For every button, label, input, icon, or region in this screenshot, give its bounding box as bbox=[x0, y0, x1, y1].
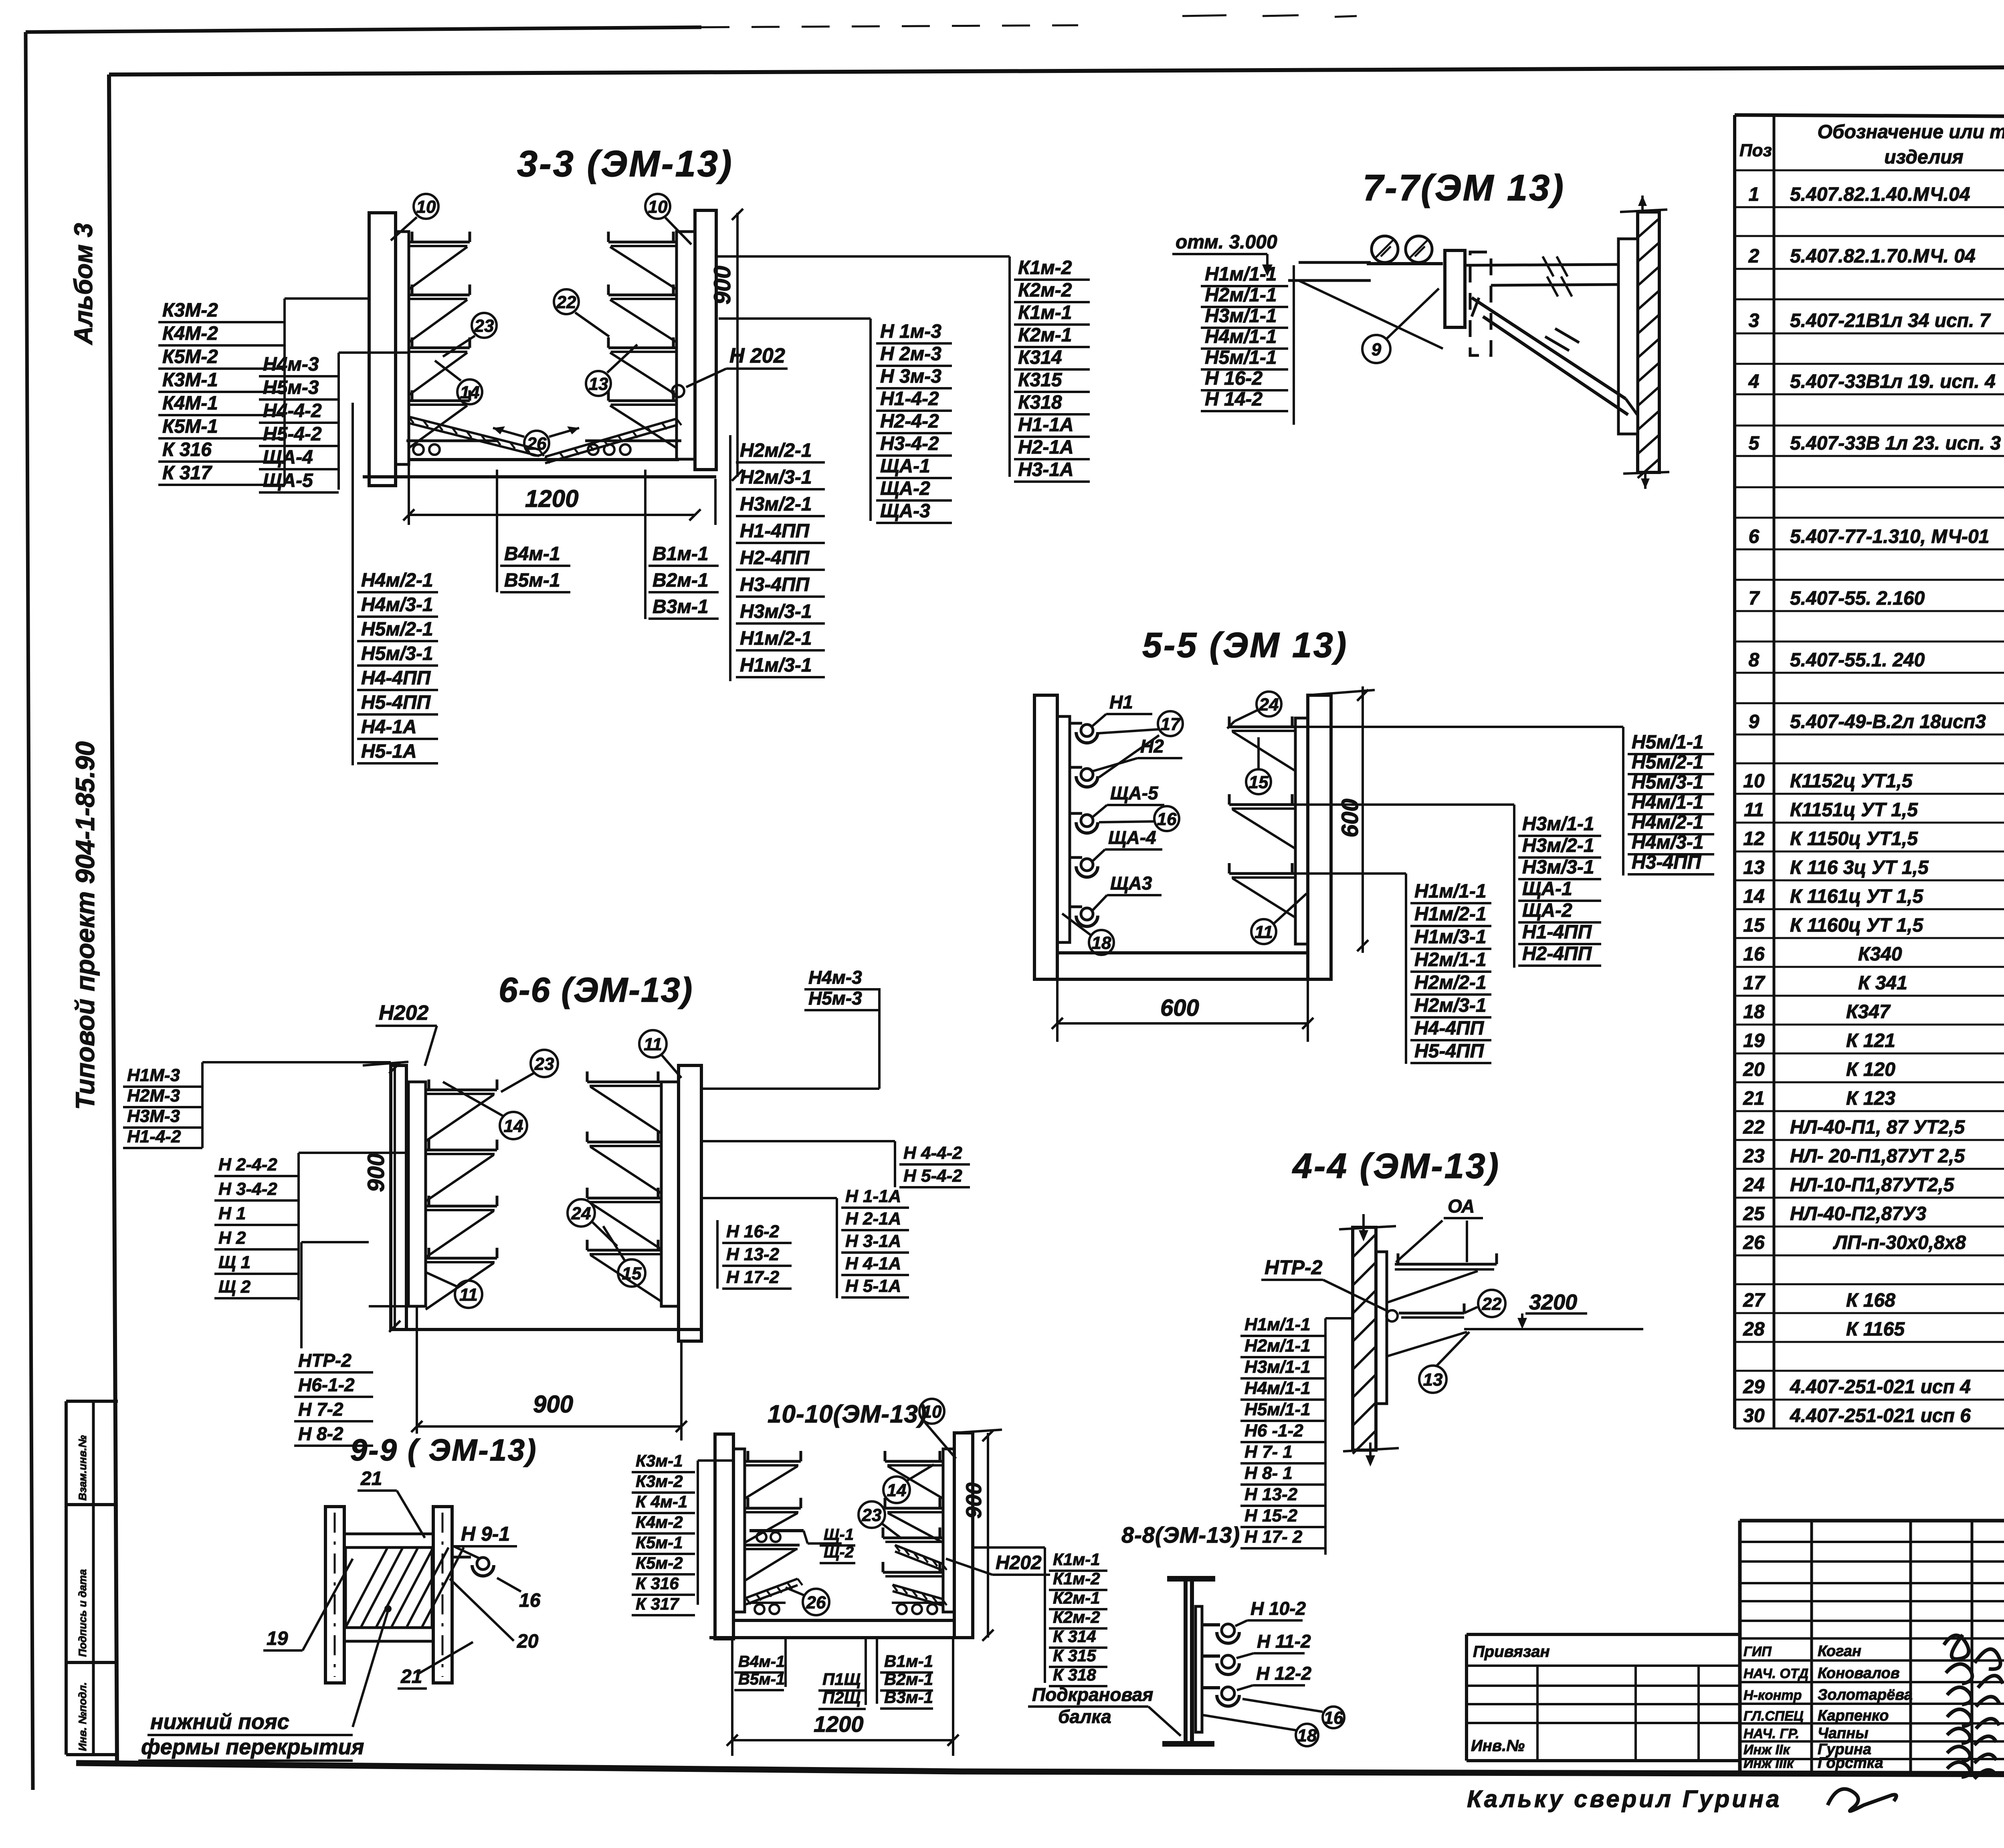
3-3 horizontal dimension 1200 bbox=[409, 514, 695, 516]
svg-text:29: 29 bbox=[1743, 1376, 1765, 1398]
svg-text:ЩА3: ЩА3 bbox=[1110, 873, 1152, 894]
7-7 dashed post bbox=[1470, 252, 1491, 355]
10-10 floor lines bbox=[733, 1619, 954, 1622]
svg-text:13: 13 bbox=[589, 374, 608, 394]
svg-text:Н6-1-2: Н6-1-2 bbox=[298, 1374, 355, 1395]
4-4 hatched wall bbox=[1353, 1227, 1376, 1450]
svg-text:24: 24 bbox=[571, 1204, 591, 1223]
svg-text:7: 7 bbox=[1749, 588, 1760, 609]
svg-text:Н2м/2-1: Н2м/2-1 bbox=[740, 440, 812, 461]
svg-text:14: 14 bbox=[460, 383, 480, 402]
svg-text:Н 2-1А: Н 2-1А bbox=[845, 1209, 901, 1229]
sheet outer border top bbox=[26, 27, 701, 32]
svg-text:В5м-1: В5м-1 bbox=[738, 1670, 785, 1688]
svg-text:Н4м/1-1: Н4м/1-1 bbox=[1632, 792, 1704, 813]
svg-text:Привязан: Привязан bbox=[1473, 1643, 1550, 1660]
svg-text:Н1м/1-1: Н1м/1-1 bbox=[1205, 264, 1277, 285]
svg-text:22: 22 bbox=[1743, 1117, 1765, 1138]
svg-text:Н 1: Н 1 bbox=[218, 1204, 246, 1223]
svg-text:Н4-4ПП: Н4-4ПП bbox=[361, 668, 431, 689]
svg-text:Н 8- 1: Н 8- 1 bbox=[1244, 1463, 1293, 1483]
svg-text:ЩА-2: ЩА-2 bbox=[1522, 900, 1572, 921]
svg-text:18: 18 bbox=[1743, 1001, 1765, 1023]
svg-text:В3м-1: В3м-1 bbox=[653, 596, 709, 617]
svg-text:Н5м/2-1: Н5м/2-1 bbox=[361, 619, 433, 640]
svg-text:Н2м/1-1: Н2м/1-1 bbox=[1414, 949, 1487, 970]
6-6 left bar bbox=[408, 1082, 426, 1306]
svg-text:НТР-2: НТР-2 bbox=[298, 1350, 352, 1371]
3-3 callout circle 23 bbox=[472, 313, 497, 338]
svg-text:Н5м/1-1: Н5м/1-1 bbox=[1244, 1400, 1311, 1419]
6-6 callout circle 11 bottom bbox=[455, 1281, 482, 1308]
svg-text:Н 1м-3: Н 1м-3 bbox=[880, 321, 941, 342]
svg-text:К 123: К 123 bbox=[1846, 1088, 1895, 1109]
svg-text:Кальку сверил Гурина: Кальку сверил Гурина bbox=[1467, 1785, 1782, 1812]
10-10 right floor rollers bbox=[897, 1604, 907, 1614]
svg-text:Н3м/2-1: Н3м/2-1 bbox=[1522, 835, 1594, 856]
svg-text:Н4м/3-1: Н4м/3-1 bbox=[361, 594, 433, 615]
svg-text:18: 18 bbox=[1297, 1726, 1317, 1745]
svg-text:К347: К347 bbox=[1846, 1001, 1891, 1023]
svg-text:15: 15 bbox=[1743, 915, 1765, 936]
table outer and columns bbox=[1735, 115, 2004, 119]
4-4 wall bar bbox=[1376, 1252, 1387, 1404]
6-6 callout circle 24 bbox=[568, 1199, 595, 1227]
svg-text:Н 1-1А: Н 1-1А bbox=[845, 1186, 901, 1206]
svg-text:К1м-2: К1м-2 bbox=[1053, 1569, 1100, 1588]
10-10 right hatched tray 2 bbox=[893, 1585, 942, 1599]
svg-text:Н3м/3-1: Н3м/3-1 bbox=[1522, 857, 1594, 878]
svg-text:В5м-1: В5м-1 bbox=[504, 570, 560, 591]
6-6 callout circle 23 bbox=[531, 1050, 558, 1077]
svg-text:балка: балка bbox=[1058, 1706, 1111, 1727]
5-5 right shelves bbox=[1229, 726, 1295, 728]
svg-text:24: 24 bbox=[1259, 695, 1279, 714]
svg-text:Н 17-2: Н 17-2 bbox=[726, 1267, 780, 1287]
svg-text:НЛ-40-П2,87У3: НЛ-40-П2,87У3 bbox=[1790, 1203, 1926, 1225]
svg-text:Карпенко: Карпенко bbox=[1818, 1707, 1889, 1724]
svg-text:5.407-33В1л 19. исп. 4: 5.407-33В1л 19. исп. 4 bbox=[1790, 371, 1996, 392]
svg-text:Н4м/2-1: Н4м/2-1 bbox=[1632, 812, 1704, 833]
svg-text:Н 3м-3: Н 3м-3 bbox=[880, 366, 941, 387]
svg-text:4-4 (ЭМ-13): 4-4 (ЭМ-13) bbox=[1292, 1146, 1500, 1186]
3-3 right sloped tray bbox=[545, 419, 677, 457]
title block left grid verticals bbox=[1810, 1521, 1813, 1775]
svg-text:Н5м/3-1: Н5м/3-1 bbox=[1632, 772, 1704, 793]
5-5 horizontal dimension 600 bbox=[1057, 1022, 1308, 1025]
svg-text:Н 16-2: Н 16-2 bbox=[1205, 368, 1263, 389]
svg-text:К3м-2: К3м-2 bbox=[636, 1472, 683, 1491]
4-4 top shelf OA bbox=[1395, 1263, 1497, 1266]
svg-text:Н2-4ПП: Н2-4ПП bbox=[740, 547, 810, 569]
3-3 right shelves bbox=[608, 241, 677, 244]
10-10 callout circle 26 bbox=[803, 1589, 829, 1615]
inner frame top line bbox=[109, 65, 2004, 75]
svg-text:Н3-1А: Н3-1А bbox=[1018, 459, 1074, 480]
svg-text:Н3м/3-1: Н3м/3-1 bbox=[740, 601, 812, 622]
svg-text:6-6 (ЭМ-13): 6-6 (ЭМ-13) bbox=[499, 971, 693, 1009]
svg-text:К3М-2: К3М-2 bbox=[162, 300, 218, 321]
3-3 callout circle 13 bbox=[586, 371, 611, 396]
svg-text:Н202: Н202 bbox=[379, 1001, 428, 1025]
svg-text:12: 12 bbox=[1743, 828, 1765, 849]
svg-text:Н5м-3: Н5м-3 bbox=[808, 988, 862, 1009]
7-7 brace break marks bbox=[1545, 337, 1569, 351]
svg-text:9: 9 bbox=[1372, 340, 1382, 359]
svg-text:К318: К318 bbox=[1018, 392, 1062, 413]
svg-text:П1Щ: П1Щ bbox=[822, 1670, 861, 1689]
svg-text:5.407-55. 2.160: 5.407-55. 2.160 bbox=[1790, 588, 1925, 609]
svg-text:4: 4 bbox=[1748, 371, 1760, 392]
10-10 right bar bbox=[943, 1449, 954, 1612]
svg-text:Н2-1А: Н2-1А bbox=[1018, 437, 1074, 458]
svg-text:8: 8 bbox=[1749, 650, 1760, 671]
svg-text:ГИП: ГИП bbox=[1743, 1644, 1772, 1659]
5-5 right bar bbox=[1295, 718, 1308, 944]
svg-text:Н4м/3-1: Н4м/3-1 bbox=[1632, 832, 1704, 853]
svg-text:Н 13-2: Н 13-2 bbox=[1244, 1485, 1298, 1504]
6-6 callout circle 15 bbox=[618, 1259, 645, 1287]
svg-text:Н 2м-3: Н 2м-3 bbox=[880, 343, 941, 365]
svg-text:Н1-4ПП: Н1-4ПП bbox=[740, 521, 810, 542]
3-3 callout circle 22 bbox=[554, 289, 579, 314]
svg-text:К5М-1: К5М-1 bbox=[162, 416, 218, 437]
svg-text:К314: К314 bbox=[1018, 347, 1062, 368]
svg-text:Н 7- 1: Н 7- 1 bbox=[1244, 1442, 1293, 1462]
7-7 callout circle 9 bbox=[1362, 335, 1390, 363]
svg-text:ЩА-4: ЩА-4 bbox=[263, 447, 313, 468]
svg-text:В2м-1: В2м-1 bbox=[653, 570, 709, 591]
svg-text:16: 16 bbox=[1324, 1708, 1343, 1728]
sidebar stamp boxes bbox=[66, 1400, 118, 1403]
3-3 left cable stand bar bbox=[396, 232, 409, 464]
10-10 vertical dimension 900 bbox=[987, 1433, 989, 1638]
9-9 top tie bar bbox=[344, 1533, 433, 1535]
svg-text:10: 10 bbox=[648, 197, 668, 217]
top edge artifact dashes bbox=[1182, 15, 1226, 16]
svg-text:20: 20 bbox=[517, 1631, 539, 1652]
svg-text:Н3-4-2: Н3-4-2 bbox=[880, 433, 939, 454]
3-3 callout circle 10 left bbox=[414, 194, 438, 219]
10-10 right shelf lower bbox=[883, 1571, 943, 1574]
svg-text:16: 16 bbox=[1157, 809, 1177, 829]
10-10 left bar bbox=[733, 1449, 745, 1612]
7-7 diagonal brace bbox=[1472, 298, 1626, 399]
svg-text:К2м-2: К2м-2 bbox=[1018, 280, 1072, 301]
3-3 callout circle 10 right bbox=[645, 194, 670, 219]
5-5 cable hooks bbox=[1070, 722, 1082, 725]
svg-text:В2м-1: В2м-1 bbox=[884, 1670, 933, 1689]
7-7 diagonal leader from shelf bbox=[1299, 280, 1443, 349]
svg-text:Коган: Коган bbox=[1818, 1643, 1861, 1660]
svg-text:Н202: Н202 bbox=[996, 1552, 1042, 1574]
svg-text:ЛП-п-30х0,8х8: ЛП-п-30х0,8х8 bbox=[1833, 1232, 1966, 1253]
8-8 cable stand bar bbox=[1196, 1606, 1202, 1732]
3-3 right cable stand bar bbox=[677, 232, 695, 459]
svg-text:К5м-1: К5м-1 bbox=[636, 1533, 683, 1552]
svg-text:НЛ-10-П1,87УТ2,5: НЛ-10-П1,87УТ2,5 bbox=[1790, 1174, 1955, 1196]
svg-text:5.407.82.1.70.МЧ. 04: 5.407.82.1.70.МЧ. 04 bbox=[1790, 246, 1976, 267]
svg-text:5.407.82.1.40.МЧ.04: 5.407.82.1.40.МЧ.04 bbox=[1790, 184, 1970, 205]
5-5 left bar bbox=[1057, 716, 1070, 942]
svg-text:К 1160ц УТ 1,5: К 1160ц УТ 1,5 bbox=[1790, 915, 1924, 936]
8-8 callout circle 18 bbox=[1296, 1724, 1318, 1746]
3-3 callout circle 26 bbox=[524, 431, 549, 456]
svg-text:В3м-1: В3м-1 bbox=[884, 1688, 933, 1707]
6-6 callout circle 14 bbox=[500, 1112, 527, 1139]
svg-text:изделия: изделия bbox=[1884, 147, 1964, 168]
svg-text:Н5-4ПП: Н5-4ПП bbox=[1414, 1041, 1485, 1062]
svg-text:Н4м/1-1: Н4м/1-1 bbox=[1244, 1378, 1311, 1398]
svg-text:Н3м/2-1: Н3м/2-1 bbox=[740, 494, 812, 515]
svg-text:Н 3-4-2: Н 3-4-2 bbox=[218, 1179, 277, 1199]
10-10 right column bbox=[954, 1433, 973, 1638]
svg-text:900: 900 bbox=[709, 266, 735, 305]
svg-text:НАЧ. ГР.: НАЧ. ГР. bbox=[1743, 1726, 1799, 1741]
svg-text:Н 12-2: Н 12-2 bbox=[1256, 1663, 1311, 1684]
svg-text:Обозначение или тип: Обозначение или тип bbox=[1818, 121, 2004, 143]
svg-text:Н1м/2-1: Н1м/2-1 bbox=[1414, 904, 1487, 925]
4-4 callout circle 22 bbox=[1478, 1290, 1505, 1317]
svg-text:Чапны: Чапны bbox=[1818, 1725, 1869, 1742]
svg-text:11: 11 bbox=[1255, 922, 1273, 942]
4-4 wall centerline arrows bbox=[1362, 1214, 1365, 1239]
svg-text:10-10(ЭМ-13): 10-10(ЭМ-13) bbox=[768, 1400, 927, 1428]
svg-text:Н4м/1-1: Н4м/1-1 bbox=[1205, 326, 1277, 347]
svg-text:Н 9-1: Н 9-1 bbox=[461, 1523, 510, 1545]
svg-text:В1м-1: В1м-1 bbox=[653, 543, 709, 565]
svg-text:11: 11 bbox=[644, 1035, 662, 1054]
7-7 horizontal ties with break marks bbox=[1465, 264, 1618, 265]
svg-text:Н1м/1-1: Н1м/1-1 bbox=[1414, 881, 1487, 902]
svg-text:5.407-21В1л 34 исп. 7: 5.407-21В1л 34 исп. 7 bbox=[1790, 310, 1991, 331]
svg-text:Н2М-3: Н2М-3 bbox=[127, 1086, 180, 1106]
6-6 left column bbox=[391, 1065, 406, 1330]
svg-text:2: 2 bbox=[1748, 246, 1760, 267]
svg-text:ОА: ОА bbox=[1448, 1196, 1475, 1217]
svg-text:К2м-1: К2м-1 bbox=[1053, 1588, 1100, 1607]
svg-text:Н3м/1-1: Н3м/1-1 bbox=[1244, 1357, 1311, 1377]
10-10 callout circle 23 bbox=[859, 1501, 885, 1528]
svg-text:Коновалов: Коновалов bbox=[1818, 1665, 1900, 1682]
sheet bottom heavy line bbox=[76, 1763, 2004, 1775]
svg-text:5-5 (ЭМ 13): 5-5 (ЭМ 13) bbox=[1142, 625, 1348, 665]
svg-text:11: 11 bbox=[459, 1285, 478, 1305]
svg-text:К 315: К 315 bbox=[1053, 1646, 1096, 1665]
3-3 floor lines bbox=[409, 458, 679, 461]
svg-text:7-7(ЭМ 13): 7-7(ЭМ 13) bbox=[1363, 167, 1565, 208]
3-3 callout circle 14 bbox=[457, 379, 482, 404]
8-8 callout circle 16 bbox=[1323, 1707, 1344, 1728]
svg-text:13: 13 bbox=[1743, 857, 1765, 878]
svg-text:К2м-1: К2м-1 bbox=[1018, 325, 1072, 346]
svg-text:ЩА-2: ЩА-2 bbox=[880, 478, 930, 499]
svg-text:28: 28 bbox=[1743, 1319, 1765, 1340]
6-6 right column bbox=[679, 1065, 701, 1341]
svg-text:10: 10 bbox=[1743, 771, 1765, 792]
svg-text:К 1150ц УТ1,5: К 1150ц УТ1,5 bbox=[1790, 828, 1918, 849]
svg-text:5.407-33В 1л 23. исп. 3: 5.407-33В 1л 23. исп. 3 bbox=[1790, 433, 2001, 454]
svg-text:К 318: К 318 bbox=[1053, 1665, 1096, 1684]
svg-text:Н 16-2: Н 16-2 bbox=[726, 1222, 780, 1241]
svg-text:Н4-4-2: Н4-4-2 bbox=[263, 400, 322, 422]
5-5 right wall bbox=[1308, 695, 1331, 979]
svg-text:К1151ц УТ 1,5: К1151ц УТ 1,5 bbox=[1790, 799, 1918, 821]
svg-text:Н 8-2: Н 8-2 bbox=[298, 1423, 343, 1444]
svg-text:5.407-49-В.2л 18исп3: 5.407-49-В.2л 18исп3 bbox=[1790, 711, 1986, 732]
10-10 right hatched tray 1 bbox=[895, 1545, 942, 1564]
3-3 vertical dimension 900 bbox=[736, 213, 739, 477]
5-5 callout circle 15 bbox=[1246, 769, 1271, 794]
svg-text:5: 5 bbox=[1749, 433, 1760, 454]
svg-text:П2Щ: П2Щ bbox=[822, 1688, 861, 1707]
svg-text:9: 9 bbox=[1749, 711, 1760, 732]
svg-text:Н1: Н1 bbox=[1109, 692, 1133, 712]
9-9 wall hook bbox=[452, 1556, 471, 1559]
svg-text:Н2м/3-1: Н2м/3-1 bbox=[740, 467, 812, 488]
svg-text:К2м-2: К2м-2 bbox=[1053, 1608, 1100, 1626]
svg-text:9-9 ( ЭМ-13): 9-9 ( ЭМ-13) bbox=[350, 1433, 537, 1467]
title block left grid horizontals bbox=[1740, 1541, 2004, 1543]
svg-text:К 341: К 341 bbox=[1858, 972, 1907, 994]
svg-text:К 316: К 316 bbox=[162, 439, 212, 460]
svg-text:15: 15 bbox=[622, 1264, 642, 1283]
svg-text:16: 16 bbox=[1743, 944, 1765, 965]
svg-text:11: 11 bbox=[1744, 799, 1764, 821]
3-3 left wall column bbox=[369, 213, 396, 486]
svg-text:В4м-1: В4м-1 bbox=[504, 543, 560, 565]
svg-text:Инв. №подл.: Инв. №подл. bbox=[77, 1682, 89, 1751]
svg-text:Щ 2: Щ 2 bbox=[218, 1277, 251, 1297]
svg-text:5.407-77-1.310, МЧ-01: 5.407-77-1.310, МЧ-01 bbox=[1790, 526, 1989, 547]
9-9 hatched panel bbox=[345, 1547, 432, 1628]
svg-text:К 314: К 314 bbox=[1053, 1627, 1096, 1646]
svg-text:Н4м-3: Н4м-3 bbox=[808, 967, 862, 988]
svg-text:К3М-1: К3М-1 bbox=[162, 369, 218, 391]
svg-text:фермы перекрытия: фермы перекрытия bbox=[141, 1735, 364, 1759]
svg-text:Щ-2: Щ-2 bbox=[824, 1543, 854, 1561]
5-5 callout circle 11 bbox=[1251, 919, 1276, 944]
svg-text:6: 6 bbox=[1749, 526, 1760, 547]
svg-text:К1м-1: К1м-1 bbox=[1018, 302, 1072, 323]
svg-text:Н3-4ПП: Н3-4ПП bbox=[740, 574, 810, 595]
svg-text:К5М-2: К5М-2 bbox=[162, 346, 218, 367]
svg-text:Н2м/2-1: Н2м/2-1 bbox=[1414, 972, 1487, 993]
привязан table bbox=[1467, 1633, 1740, 1636]
svg-text:Н2м/1-1: Н2м/1-1 bbox=[1205, 284, 1277, 306]
svg-text:Н 2-4-2: Н 2-4-2 bbox=[218, 1155, 277, 1174]
svg-text:Н1м/3-1: Н1м/3-1 bbox=[1414, 926, 1487, 948]
7-7 wall hatched bbox=[1638, 212, 1659, 472]
7-7 shelf line bbox=[1288, 279, 1371, 282]
svg-text:НЛ- 20-П1,87УТ 2,5: НЛ- 20-П1,87УТ 2,5 bbox=[1790, 1146, 1965, 1167]
10-10 left floor rollers bbox=[755, 1604, 764, 1614]
7-7 cable rolls bbox=[1372, 236, 1398, 262]
svg-text:21: 21 bbox=[360, 1468, 382, 1489]
svg-text:Поз: Поз bbox=[1739, 141, 1772, 160]
6-6 callout circle 11 top bbox=[639, 1030, 667, 1057]
svg-text:Подпись и дата: Подпись и дата bbox=[77, 1569, 89, 1657]
10-10 left hatched tray bbox=[746, 1579, 798, 1598]
5-5 callout circle 24 bbox=[1257, 692, 1281, 716]
svg-text:1: 1 bbox=[1749, 184, 1760, 205]
5-5 callout circle 18 bbox=[1089, 930, 1114, 955]
svg-text:3200: 3200 bbox=[1529, 1290, 1577, 1314]
svg-text:В4м-1: В4м-1 bbox=[738, 1653, 785, 1670]
3-3 left shelves K-series bbox=[409, 241, 470, 244]
svg-text:ЩА-5: ЩА-5 bbox=[263, 470, 313, 491]
svg-text:нижний пояс: нижний пояс bbox=[150, 1710, 289, 1734]
svg-text:К315: К315 bbox=[1018, 369, 1063, 391]
svg-text:Н1-4-2: Н1-4-2 bbox=[127, 1127, 181, 1146]
8-8 hooks bbox=[1202, 1623, 1220, 1626]
svg-text:Н5-1А: Н5-1А bbox=[361, 741, 417, 762]
svg-text:Н 10-2: Н 10-2 bbox=[1250, 1598, 1306, 1619]
svg-text:К1152ц УТ1,5: К1152ц УТ1,5 bbox=[1790, 771, 1913, 792]
svg-text:К 4м-1: К 4м-1 bbox=[636, 1492, 687, 1511]
svg-text:21: 21 bbox=[1743, 1088, 1764, 1109]
svg-text:900: 900 bbox=[363, 1153, 389, 1192]
title block signatures squiggles bbox=[1944, 1635, 2000, 1669]
svg-text:Н5м/1-1: Н5м/1-1 bbox=[1205, 347, 1277, 368]
title block frame bbox=[1740, 1519, 2004, 1523]
svg-text:К4М-2: К4М-2 bbox=[162, 323, 218, 344]
9-9 left I-column bbox=[325, 1507, 344, 1683]
svg-text:Н1м/3-1: Н1м/3-1 bbox=[740, 655, 812, 676]
svg-text:Н4-1А: Н4-1А bbox=[361, 716, 417, 738]
svg-text:5.407-55.1. 240: 5.407-55.1. 240 bbox=[1790, 650, 1925, 671]
svg-text:21: 21 bbox=[400, 1666, 422, 1687]
svg-text:Щ-1: Щ-1 bbox=[824, 1526, 854, 1543]
svg-text:НАЧ. ОТД: НАЧ. ОТД bbox=[1743, 1666, 1808, 1681]
6-6 vertical dimension 900 bbox=[394, 1065, 396, 1330]
svg-text:Н 7-2: Н 7-2 bbox=[298, 1399, 343, 1420]
10-10 horizontal dimension 1200 bbox=[732, 1739, 953, 1741]
svg-text:900: 900 bbox=[962, 1483, 986, 1519]
svg-text:19: 19 bbox=[1743, 1030, 1765, 1051]
svg-text:26: 26 bbox=[1743, 1232, 1765, 1253]
10-10 left column bbox=[715, 1434, 733, 1639]
svg-text:Н3м/1-1: Н3м/1-1 bbox=[1522, 813, 1594, 835]
svg-text:Н1м/2-1: Н1м/2-1 bbox=[740, 628, 812, 649]
svg-text:22: 22 bbox=[1482, 1294, 1502, 1314]
svg-text:ЩА-4: ЩА-4 bbox=[1108, 827, 1156, 848]
svg-text:10: 10 bbox=[922, 1402, 942, 1422]
svg-text:17: 17 bbox=[1161, 714, 1181, 734]
svg-text:10: 10 bbox=[416, 197, 436, 217]
svg-text:20: 20 bbox=[1743, 1059, 1765, 1080]
svg-text:8-8(ЭМ-13): 8-8(ЭМ-13) bbox=[1121, 1522, 1240, 1547]
svg-text:1200: 1200 bbox=[525, 485, 578, 512]
svg-text:26: 26 bbox=[806, 1593, 826, 1612]
svg-text:Н 2: Н 2 bbox=[218, 1228, 246, 1248]
svg-text:14: 14 bbox=[887, 1481, 907, 1500]
svg-text:Н 5-4-2: Н 5-4-2 bbox=[903, 1166, 962, 1186]
svg-text:ГЛ.СПЕЦ: ГЛ.СПЕЦ bbox=[1743, 1709, 1804, 1724]
svg-text:13: 13 bbox=[1423, 1370, 1443, 1390]
svg-text:25: 25 bbox=[1743, 1203, 1765, 1225]
svg-text:Альбом 3: Альбом 3 bbox=[69, 223, 98, 345]
svg-text:Н5м/3-1: Н5м/3-1 bbox=[361, 643, 433, 664]
svg-text:4.407-251-021 исп 6: 4.407-251-021 исп 6 bbox=[1790, 1405, 1971, 1426]
svg-text:Н 4-4-2: Н 4-4-2 bbox=[903, 1143, 962, 1163]
svg-text:Инж IIк: Инж IIк bbox=[1743, 1742, 1790, 1757]
4-4 middle shelf with hook bbox=[1386, 1310, 1398, 1321]
svg-text:ЩА-1: ЩА-1 bbox=[1522, 878, 1572, 900]
3-3 left sloped tray pos26 bbox=[409, 417, 539, 450]
svg-text:Н 5-1А: Н 5-1А bbox=[845, 1276, 901, 1296]
6-6 right shelves bbox=[587, 1081, 661, 1083]
